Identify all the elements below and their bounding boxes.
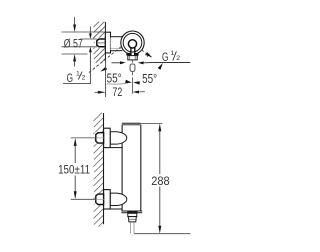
dimension 72 bbox=[95, 61, 145, 98]
mixer bar body (front view) bbox=[121, 123, 142, 212]
svg-text:288: 288 bbox=[151, 174, 170, 188]
angle arc faint segment under 55 label bbox=[107, 83, 128, 84]
concealed union nut at wall (top view) bbox=[95, 38, 106, 49]
angle arc arrowhead near left 55 label bbox=[100, 67, 107, 72]
svg-text:150±11: 150±11 bbox=[58, 164, 90, 177]
wall section hatch (top view) bbox=[93, 22, 106, 63]
upper S-union connection bbox=[95, 128, 127, 147]
angle arc terminal arrowheads at centerline bbox=[125, 80, 140, 85]
thread tick marks on right swivel line bbox=[145, 52, 149, 56]
lower S-union connection bbox=[95, 190, 127, 209]
dimension Ø57 extension lines bbox=[62, 32, 106, 54]
dimension 150±11 bbox=[71, 138, 97, 199]
svg-text:55°: 55° bbox=[107, 72, 122, 86]
wall section hatch (front view) bbox=[93, 113, 104, 227]
pipe thread G1/2 dimension (left) bbox=[62, 27, 98, 84]
svg-text:55°: 55° bbox=[142, 72, 157, 86]
dimension 288 bbox=[134, 123, 190, 233]
G 1/2 label right underline bbox=[153, 62, 190, 64]
svg-text:2: 2 bbox=[82, 74, 86, 81]
arrowhead at end of right swivel line bbox=[146, 53, 152, 58]
G 1/2 right leader arrow bbox=[158, 63, 163, 70]
angle dimension upper arrow pair bbox=[112, 61, 153, 64]
55 deg swivel dashed line right bbox=[142, 50, 152, 57]
svg-text:Ø 57: Ø 57 bbox=[64, 36, 83, 50]
valve body circles (top view) bbox=[121, 31, 144, 54]
svg-text:72: 72 bbox=[112, 85, 122, 99]
svg-text:G: G bbox=[162, 51, 168, 64]
svg-text:G: G bbox=[67, 71, 73, 85]
shower outlet below valve (top view) bbox=[126, 48, 138, 72]
outlet centerline (top view) bbox=[131, 60, 133, 94]
shower outlet at bottom of bar bbox=[127, 211, 137, 233]
svg-text:1: 1 bbox=[171, 50, 175, 57]
svg-text:2: 2 bbox=[176, 55, 180, 62]
connection pipe (top view) bbox=[111, 37, 123, 51]
55 deg swivel dashed line left bbox=[89, 47, 121, 73]
dimension Ø57 arrows bbox=[73, 17, 76, 66]
wall rosette / escutcheon (top view) bbox=[105, 32, 110, 53]
